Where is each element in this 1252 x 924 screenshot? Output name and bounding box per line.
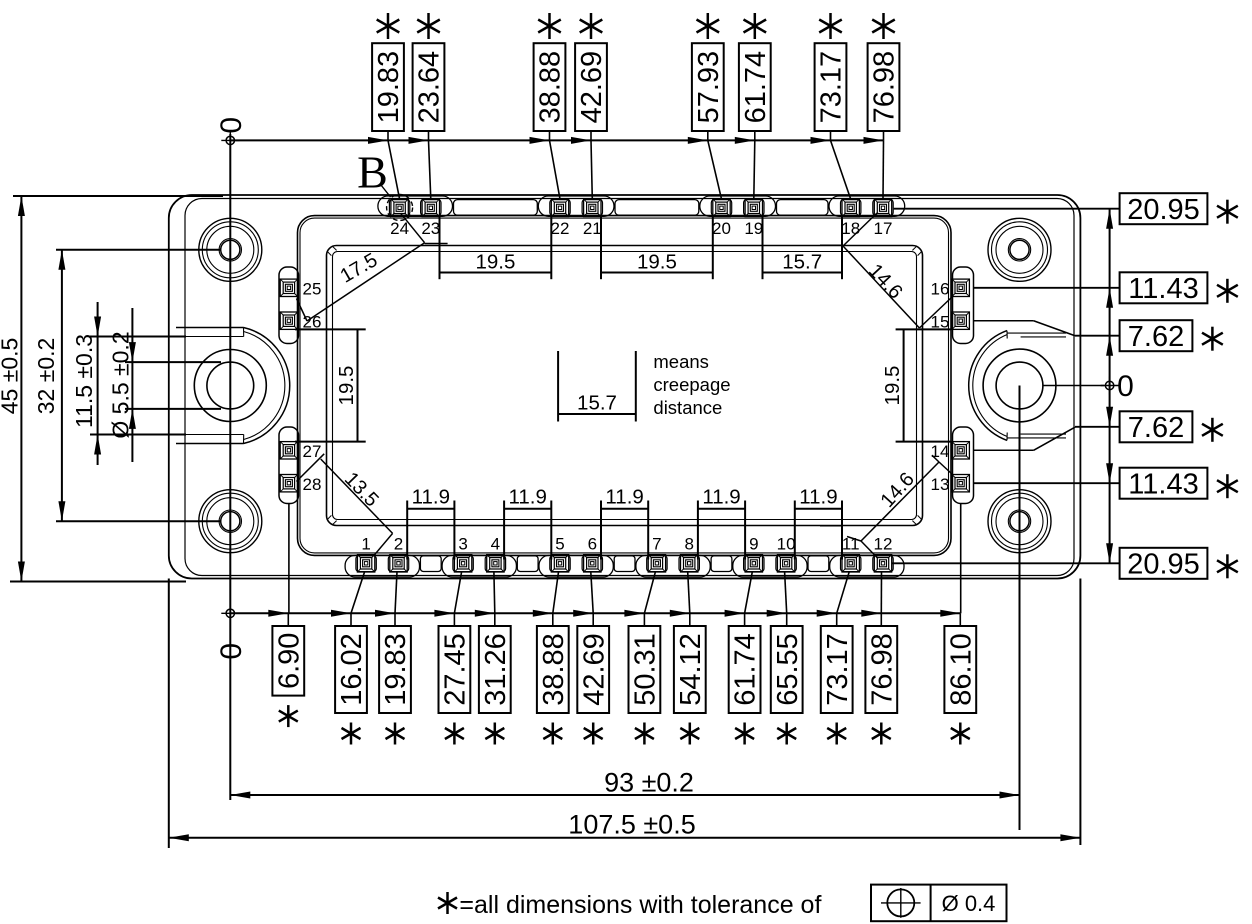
- svg-text:19.83: 19.83: [373, 51, 405, 124]
- bottom empty slots between pin slots: [420, 556, 828, 572]
- svg-text:21: 21: [583, 219, 602, 238]
- top dim box 23.64: [413, 43, 446, 131]
- pin 8: [681, 555, 698, 572]
- creepage brackets 11.9 bottom: [407, 486, 454, 560]
- right asterisk 11.43: [1226, 279, 1229, 303]
- pin 14: [952, 442, 969, 459]
- bottom pin number labels: [361, 534, 892, 553]
- svg-text:27.45: 27.45: [440, 633, 472, 706]
- svg-text:86.10: 86.10: [945, 633, 977, 706]
- svg-text:23: 23: [421, 219, 440, 238]
- pin 9: [745, 555, 762, 572]
- bottom dim arrow 42.69: [573, 610, 593, 617]
- bottom asterisk 6.90: [287, 705, 290, 727]
- bottom dim leader 19.83: [395, 572, 397, 614]
- svg-text:11.43: 11.43: [1128, 468, 1198, 500]
- note asterisk: [446, 892, 449, 914]
- bottom dim leader 31.26: [493, 572, 496, 614]
- bottom asterisk 38.88: [552, 723, 555, 745]
- svg-text:8: 8: [684, 534, 693, 553]
- top asterisk 73.17: [829, 13, 832, 39]
- top asterisk 38.88: [548, 13, 551, 39]
- pin 7: [648, 555, 665, 572]
- bottom dim box 76.98: [865, 626, 898, 713]
- bottom dim arrow 31.26: [475, 610, 495, 617]
- svg-text:16: 16: [931, 280, 950, 299]
- svg-text:61.74: 61.74: [730, 633, 762, 706]
- dim 5.5 extension bottom: [125, 408, 221, 410]
- dim 45 extension bottom: [10, 581, 186, 583]
- top pin slots: [378, 196, 905, 216]
- right dim arrow 20.95: [1106, 543, 1113, 563]
- bottom dim arrow 86.10: [940, 610, 960, 617]
- top pin number labels: [390, 219, 892, 238]
- bottom dim leader 76.98: [880, 572, 882, 614]
- bottom dim box 86.10: [944, 626, 977, 713]
- svg-text:61.74: 61.74: [740, 51, 772, 124]
- creepage bracket 19.5 left: [295, 329, 366, 441]
- bottom pin slots: [345, 555, 904, 577]
- top dim arrow 38.88: [530, 137, 550, 144]
- bottom dim arrow 65.55: [767, 610, 787, 617]
- svg-text:11.9: 11.9: [412, 486, 450, 509]
- top asterisk 19.83: [387, 13, 390, 39]
- bottom dim arrow 54.12: [670, 610, 690, 617]
- bottom asterisk 42.69: [592, 723, 595, 745]
- bottom pin slot outlines: [356, 556, 893, 572]
- right dim arrow 7.62: [1106, 336, 1113, 356]
- inner wall outer: [327, 246, 923, 526]
- bottom asterisk 61.74: [743, 723, 746, 745]
- pin 4: [487, 555, 504, 572]
- inner wall inner: [333, 252, 917, 520]
- mounting hole bottom-right: [988, 490, 1051, 553]
- bottom dim leader 42.69: [591, 572, 593, 614]
- top dim box 57.93: [692, 43, 725, 131]
- pin 23: [422, 199, 439, 216]
- dim 5.5 line: [131, 308, 133, 462]
- bottom dim arrow 50.31: [624, 610, 644, 617]
- svg-text:1: 1: [361, 534, 370, 553]
- pin 11: [842, 555, 859, 572]
- right dim arrow 7.62: [1106, 407, 1113, 427]
- svg-text:24: 24: [390, 219, 409, 238]
- inner wall corner bevels: [327, 246, 922, 525]
- dim 11.5 extension top: [90, 336, 186, 338]
- pin 1: [357, 555, 374, 572]
- right bushing: [969, 321, 1075, 451]
- bottom dim leader 65.55: [785, 572, 787, 614]
- bottom asterisk 73.17: [835, 723, 838, 745]
- svg-text:11.9: 11.9: [702, 486, 740, 509]
- left pin housing lower: [279, 427, 299, 504]
- svg-text:19.83: 19.83: [380, 633, 412, 706]
- bottom dim arrow 19.83: [375, 610, 395, 617]
- right leader 11.43: [974, 287, 1120, 289]
- top dim leader 76.98: [883, 131, 885, 140]
- creepage bracket 15.7 top-right: [763, 216, 843, 280]
- callout 13.5 bottom-left: [296, 454, 392, 555]
- svg-text:0: 0: [215, 643, 248, 660]
- bottom asterisk 27.45: [453, 723, 456, 745]
- top dim arrow 57.93: [688, 137, 708, 144]
- svg-text:23.64: 23.64: [414, 51, 446, 124]
- right datum leader: [1043, 385, 1105, 387]
- svg-text:54.12: 54.12: [675, 633, 707, 706]
- top dimension line: [230, 139, 883, 141]
- svg-text:50.31: 50.31: [630, 633, 662, 706]
- dim 93 line: [230, 794, 1019, 796]
- bottom asterisk 50.31: [643, 723, 646, 745]
- module inner outline: [185, 199, 1074, 576]
- pin 13: [952, 475, 969, 492]
- svg-text:19.5: 19.5: [475, 251, 515, 274]
- top dim box 73.17: [815, 43, 848, 131]
- right asterisk 11.43: [1226, 474, 1229, 498]
- pin 25: [280, 279, 297, 296]
- svg-text:7.62: 7.62: [1128, 321, 1184, 353]
- right leader 7.62: [1075, 335, 1120, 337]
- svg-text:5: 5: [555, 534, 564, 553]
- svg-text:11.9: 11.9: [799, 486, 837, 509]
- dim 45 extension top: [13, 195, 223, 197]
- svg-text:9: 9: [749, 534, 758, 553]
- svg-text:15.7: 15.7: [577, 392, 617, 415]
- svg-text:42.69: 42.69: [576, 51, 608, 124]
- left pin housing upper: [279, 267, 299, 344]
- detail B leader: [381, 185, 391, 197]
- left edge extension line: [168, 579, 170, 849]
- svg-text:=all dimensions with tolerance: =all dimensions with tolerance of: [459, 891, 821, 919]
- pin 15: [952, 312, 969, 329]
- top dim leader 42.69: [590, 131, 592, 140]
- svg-text:7: 7: [652, 534, 661, 553]
- right dim arrow 11.43: [1106, 288, 1113, 308]
- svg-text:0: 0: [1117, 370, 1134, 403]
- bottom dim box 6.90: [272, 626, 305, 696]
- bottom dim box 54.12: [674, 626, 707, 713]
- svg-text:2: 2: [394, 534, 403, 553]
- svg-text:73.17: 73.17: [822, 633, 854, 706]
- right pin housing upper: [953, 267, 974, 344]
- svg-text:7.62: 7.62: [1128, 412, 1184, 444]
- svg-text:31.26: 31.26: [480, 633, 512, 706]
- pin 16: [952, 279, 969, 296]
- creepage legend symbol: [558, 351, 636, 422]
- bottom dim arrow 27.45: [434, 610, 454, 617]
- bottom asterisk 65.55: [785, 723, 788, 745]
- bottom dim box 73.17: [821, 626, 854, 713]
- svg-text:73.17: 73.17: [816, 51, 848, 124]
- callout 17.5 top-left: [297, 213, 448, 321]
- right asterisk 7.62: [1211, 418, 1214, 442]
- right dim box 20.95: [1120, 548, 1208, 581]
- svg-text:76.98: 76.98: [869, 51, 901, 124]
- top datum symbol: [226, 136, 234, 144]
- top dim arrow 23.64: [409, 137, 429, 144]
- svg-text:57.93: 57.93: [693, 51, 725, 124]
- right leader 11.43: [974, 482, 1120, 484]
- top dim arrow 61.74: [735, 137, 755, 144]
- svg-text:3: 3: [458, 534, 467, 553]
- svg-text:107.5 ±0.5: 107.5 ±0.5: [568, 809, 695, 839]
- top dim leader 19.83: [387, 131, 389, 140]
- bottom dim leader 16.02: [351, 572, 365, 614]
- top empty slots between pin slots: [454, 200, 829, 216]
- top dim arrow 73.17: [811, 137, 831, 144]
- svg-text:42.69: 42.69: [578, 633, 610, 706]
- svg-text:17: 17: [874, 219, 893, 238]
- svg-text:25: 25: [303, 280, 322, 299]
- pin 22: [551, 199, 568, 216]
- left bushing: [176, 328, 290, 444]
- creepage bracket 19.5 top-left: [440, 216, 552, 280]
- bottom dim arrow 61.74: [725, 610, 745, 617]
- svg-text:19: 19: [744, 219, 763, 238]
- svg-text:65.55: 65.55: [772, 633, 804, 706]
- svg-text:11.5 ±0.3: 11.5 ±0.3: [71, 334, 97, 428]
- bottom dim leader 38.88: [553, 572, 559, 614]
- svg-text:creepage: creepage: [653, 374, 730, 395]
- top dim box 19.83: [372, 43, 405, 131]
- pin 2: [390, 555, 407, 572]
- svg-text:11.9: 11.9: [605, 486, 643, 509]
- cavity rim outer: [298, 216, 952, 556]
- bottom asterisk 76.98: [880, 723, 883, 745]
- svg-text:means: means: [653, 351, 709, 372]
- svg-text:32 ±0.2: 32 ±0.2: [33, 338, 59, 415]
- bottom dim box 27.45: [439, 626, 472, 713]
- pin 5: [551, 555, 568, 572]
- right datum centerline: [1019, 386, 1021, 831]
- pin 20: [713, 199, 730, 216]
- svg-text:19.5: 19.5: [881, 366, 904, 406]
- svg-text:6.90: 6.90: [273, 633, 305, 689]
- svg-text:15.7: 15.7: [782, 251, 822, 274]
- bottom dim box 61.74: [729, 626, 762, 713]
- top dim arrow 76.98: [864, 137, 884, 144]
- svg-text:22: 22: [551, 219, 570, 238]
- bottom dim arrow 76.98: [861, 610, 881, 617]
- svg-text:14: 14: [931, 442, 950, 461]
- right dim arrow 20.95: [1106, 209, 1113, 229]
- svg-text:20.95: 20.95: [1127, 194, 1200, 226]
- callout 14.6 bottom-right: [820, 455, 953, 558]
- svg-text:76.98: 76.98: [866, 633, 898, 706]
- svg-text:19.5: 19.5: [637, 251, 677, 274]
- right dim box 11.43: [1120, 468, 1208, 501]
- svg-text:distance: distance: [653, 397, 722, 418]
- bottom dim arrow 73.17: [817, 610, 837, 617]
- top asterisk 23.64: [427, 13, 430, 39]
- top asterisk 76.98: [882, 13, 885, 39]
- top dim arrow 42.69: [571, 137, 591, 144]
- svg-text:13: 13: [931, 475, 950, 494]
- right pin housing lower: [953, 427, 974, 504]
- top dim leader 61.74: [754, 131, 756, 140]
- svg-text:45 ±0.5: 45 ±0.5: [0, 338, 23, 415]
- pin 6: [584, 555, 601, 572]
- right dim arrow 11.43: [1106, 463, 1113, 483]
- bottom asterisk 31.26: [494, 723, 497, 745]
- pin 3: [454, 555, 471, 572]
- right pin number labels: [931, 280, 950, 494]
- bottom dim arrow 16.02: [331, 610, 351, 617]
- bottom dim leader 54.12: [688, 572, 690, 614]
- dim 11.5 extension bottom: [90, 434, 186, 436]
- svg-text:20: 20: [712, 219, 731, 238]
- top dim box 76.98: [868, 43, 901, 131]
- bottom dim box 50.31: [629, 626, 662, 713]
- svg-text:18: 18: [841, 219, 860, 238]
- svg-text:4: 4: [491, 534, 500, 553]
- pin 26: [280, 312, 297, 329]
- top dim box 42.69: [575, 43, 608, 131]
- right dim line: [1109, 209, 1111, 564]
- svg-text:0: 0: [215, 117, 248, 134]
- bottom datum symbol: [226, 609, 234, 617]
- pin 24: [391, 199, 408, 216]
- bottom dim box 31.26: [479, 626, 512, 713]
- top asterisk 61.74: [754, 13, 757, 39]
- bottom dim box 65.55: [771, 626, 804, 713]
- bottom dim box 38.88: [537, 626, 570, 713]
- dim 5.5 extension top: [125, 361, 221, 363]
- pin 21: [584, 199, 601, 216]
- top dim leader 73.17: [830, 131, 832, 140]
- svg-text:16.02: 16.02: [336, 633, 368, 706]
- bottom asterisk 19.83: [394, 723, 397, 745]
- right asterisk 7.62: [1211, 327, 1214, 351]
- bottom dim box 16.02: [335, 626, 368, 713]
- bottom asterisk 54.12: [689, 723, 692, 745]
- dim 32 extension bottom: [56, 520, 221, 522]
- right asterisk 20.95: [1226, 200, 1229, 224]
- callout 14.6 top-right: [820, 213, 952, 328]
- bottom dim leader 73.17: [837, 572, 850, 614]
- right asterisk 20.95: [1226, 554, 1229, 578]
- bottom dimension line: [230, 612, 960, 614]
- bottom dim box 19.83: [379, 626, 412, 713]
- svg-text:12: 12: [874, 534, 893, 553]
- dim 32 line: [61, 250, 63, 521]
- pin 18: [842, 199, 859, 216]
- svg-text:11.43: 11.43: [1128, 273, 1198, 305]
- svg-text:10: 10: [777, 534, 796, 553]
- right leader 20.95: [892, 562, 1120, 564]
- top pin slot outlines: [389, 200, 893, 216]
- creepage legend text: [653, 351, 730, 418]
- dim 45 line: [20, 196, 22, 582]
- mounting hole bottom-left: [199, 490, 262, 553]
- right leader 7.62: [1075, 426, 1120, 428]
- svg-text:20.95: 20.95: [1127, 548, 1200, 580]
- dim 11.5 line: [97, 302, 99, 465]
- top asterisk 57.93: [707, 13, 710, 39]
- svg-text:Ø 5.5 ±0.2: Ø 5.5 ±0.2: [108, 331, 134, 438]
- right dim box 7.62: [1120, 320, 1193, 353]
- svg-text:Ø 0.4: Ø 0.4: [942, 891, 996, 916]
- top dim box 38.88: [534, 43, 567, 131]
- bottom dim leader 27.45: [454, 572, 461, 614]
- top dim leader 38.88: [549, 131, 551, 140]
- svg-text:93 ±0.2: 93 ±0.2: [604, 767, 694, 797]
- right edge extension line: [1079, 579, 1081, 846]
- pin 10: [777, 555, 794, 572]
- svg-text:6: 6: [588, 534, 597, 553]
- mounting hole top-right: [988, 218, 1051, 281]
- top dim arrow 19.83: [368, 137, 388, 144]
- pin 19: [745, 199, 762, 216]
- svg-text:38.88: 38.88: [538, 633, 570, 706]
- bottom dim box 42.69: [577, 626, 610, 713]
- tolerance frame: [871, 885, 1007, 922]
- svg-text:19.5: 19.5: [335, 366, 358, 406]
- left datum centerline: [229, 134, 231, 800]
- bottom asterisk 16.02: [350, 723, 353, 745]
- bottom dim leader 61.74: [745, 572, 753, 614]
- mounting hole top-left: [199, 218, 262, 281]
- svg-text:38.88: 38.88: [535, 51, 567, 124]
- svg-text:11.9: 11.9: [509, 486, 547, 509]
- detail balloon around pin 24: [387, 195, 413, 221]
- creepage bracket 19.5 right: [881, 329, 951, 441]
- pin 28: [280, 475, 297, 492]
- bottom dim arrow 6.90: [268, 610, 288, 617]
- module outer outline: [169, 195, 1081, 579]
- dim 32 extension top: [56, 249, 221, 251]
- bottom dim leader 50.31: [644, 572, 655, 614]
- right dim box 11.43: [1120, 272, 1208, 305]
- right datum symbol: [1105, 381, 1113, 389]
- pin 27: [280, 442, 297, 459]
- right leader 20.95: [894, 208, 1120, 210]
- top dim leader 57.93: [707, 131, 709, 140]
- pin 12: [874, 555, 891, 572]
- dim 107.5 line: [169, 837, 1081, 839]
- bottom asterisk 86.10: [959, 723, 962, 745]
- svg-text:28: 28: [303, 475, 322, 494]
- right dim box 20.95: [1120, 193, 1208, 226]
- right dim box 7.62: [1120, 411, 1193, 444]
- leader 6.90 housing: [288, 504, 290, 614]
- top dim leader 23.64: [428, 131, 430, 140]
- top asterisk 42.69: [590, 13, 593, 39]
- bottom dim arrow 38.88: [533, 610, 553, 617]
- left pin number labels: [303, 280, 322, 494]
- pin 17: [874, 199, 891, 216]
- leader 86.10 housing: [960, 504, 962, 614]
- svg-text:B: B: [357, 147, 388, 198]
- top dim box 61.74: [739, 43, 772, 131]
- creepage bracket 19.5 top-mid: [601, 216, 713, 280]
- cavity rim inner: [300, 218, 949, 553]
